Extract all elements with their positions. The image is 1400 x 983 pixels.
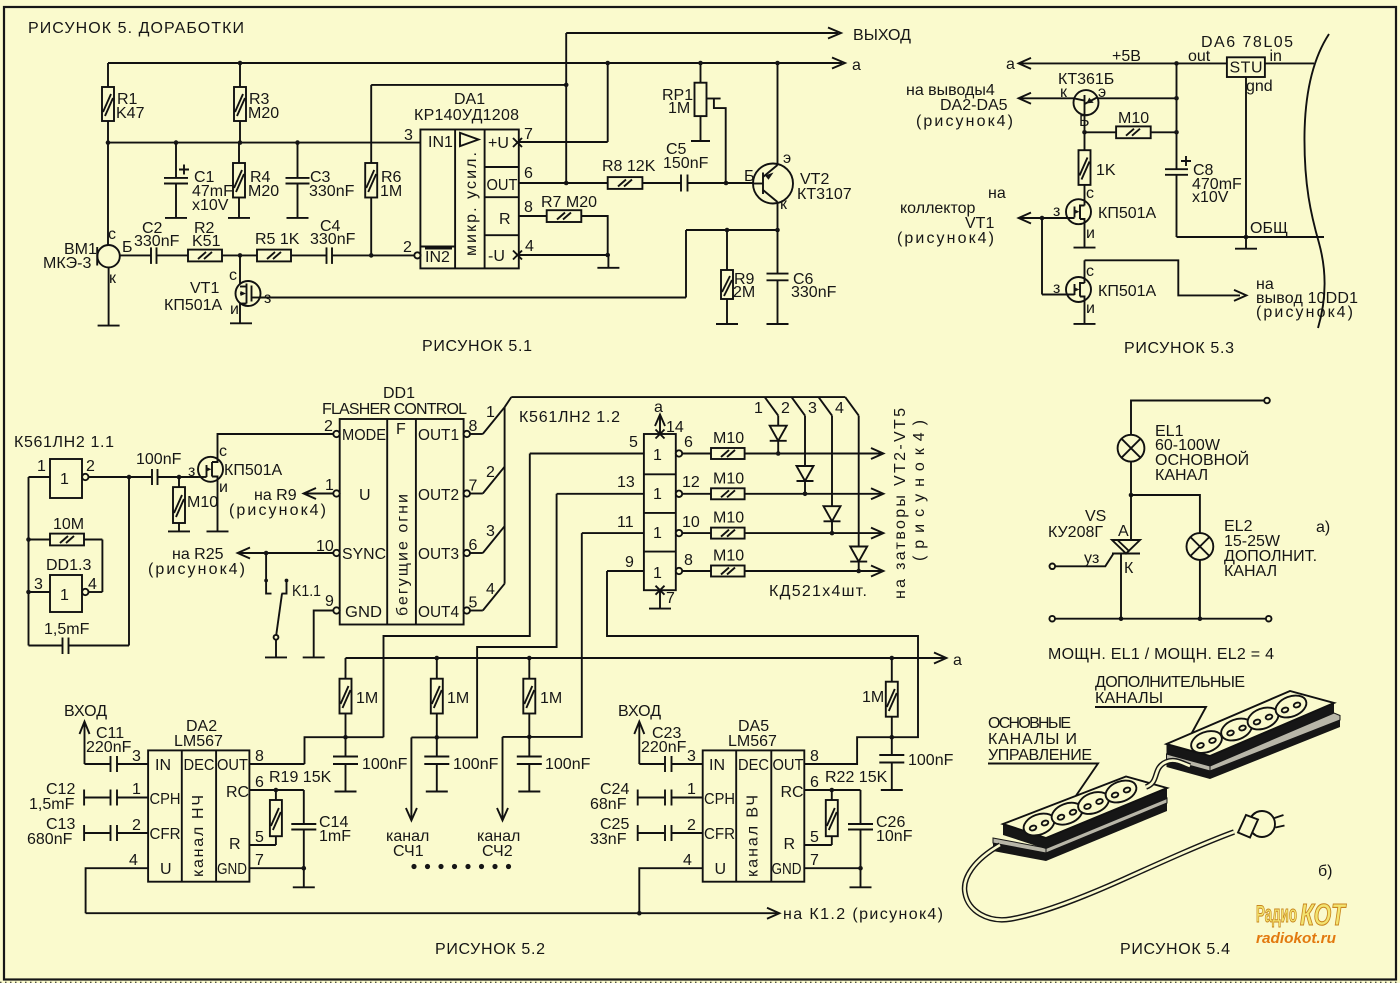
diode VD2 КД521 xyxy=(797,416,814,497)
power strip lower base board xyxy=(993,798,1167,861)
resistor 1M group3 xyxy=(523,658,562,737)
svg-text:2: 2 xyxy=(486,464,495,481)
svg-text:К561ЛН2 1.1: К561ЛН2 1.1 xyxy=(14,434,114,451)
wire net канал СЧ1 to pin13 xyxy=(386,494,557,860)
IC DA2 LM567 box xyxy=(148,718,249,882)
svg-text:КП501А: КП501А xyxy=(224,462,283,479)
svg-text:CFR: CFR xyxy=(704,826,735,843)
wire IN1 net horizontal y142 xyxy=(108,142,420,144)
wire gate уз xyxy=(1050,550,1114,569)
wire DA2 U pin4 down xyxy=(86,852,149,913)
svg-text:220nF: 220nF xyxy=(86,739,132,756)
resistor R3 M20 xyxy=(234,63,279,145)
capacitor 100nF xyxy=(136,451,198,485)
svg-text:R5 1K: R5 1K xyxy=(255,231,300,248)
ground under C14 xyxy=(293,886,315,888)
svg-text:КП501А: КП501А xyxy=(1098,205,1157,222)
svg-text:КР140УД1208: КР140УД1208 xyxy=(414,107,519,124)
svg-text:5: 5 xyxy=(469,595,478,612)
capacitor 100nF group4 xyxy=(879,737,953,790)
svg-text:1М: 1М xyxy=(540,690,562,707)
sockets upper strip xyxy=(1188,691,1310,757)
capacitor 100nF group1 xyxy=(333,737,408,791)
wire DA5 OUT pin8 xyxy=(804,748,857,765)
svg-text:1: 1 xyxy=(325,477,334,494)
svg-text:CFR: CFR xyxy=(150,826,181,843)
svg-text:M20: M20 xyxy=(248,183,279,200)
svg-text:RC: RC xyxy=(781,784,804,801)
capacitor C8 470mF polarized xyxy=(1165,63,1242,237)
svg-text:4: 4 xyxy=(129,852,138,869)
wire VT2 collector node xyxy=(686,228,780,298)
svg-text:к: к xyxy=(780,196,788,213)
svg-text:220nF: 220nF xyxy=(641,739,687,756)
wire top supply bus (net a) xyxy=(108,57,861,74)
svg-text:MODE: MODE xyxy=(342,427,386,444)
wire drain to вывод 10DD1 arrow xyxy=(1085,260,1359,321)
ground under M10 xyxy=(168,530,190,532)
svg-text:IN: IN xyxy=(709,757,725,774)
wire mic to ground xyxy=(98,267,120,325)
terminal top right xyxy=(1264,398,1270,404)
ground under C26 xyxy=(850,886,872,888)
svg-text:и: и xyxy=(1086,225,1095,242)
IC К561ЛН2 1.2 inverter column xyxy=(644,434,676,590)
svg-text:14: 14 xyxy=(666,419,684,436)
resistor R2 K51 xyxy=(188,220,257,261)
svg-text:КОТ: КОТ xyxy=(1300,897,1347,932)
svg-text:330nF: 330nF xyxy=(309,183,355,200)
wire input pin11 xyxy=(582,532,644,534)
svg-text:КП501А: КП501А xyxy=(164,297,223,314)
capacitor C6 330nF xyxy=(767,230,837,324)
svg-text:5: 5 xyxy=(810,829,819,846)
svg-text:на затворы VT2-VT5: на затворы VT2-VT5 xyxy=(892,408,909,599)
wire bottom rail xyxy=(1049,616,1271,622)
resistor 1M group2 xyxy=(431,658,469,737)
resistor 10M xyxy=(29,516,103,545)
svg-text:б): б) xyxy=(1318,863,1333,880)
svg-text:2: 2 xyxy=(687,817,696,834)
svg-text:УПРАВЛЕНИЕ: УПРАВЛЕНИЕ xyxy=(988,747,1092,764)
inverter DD1.1 xyxy=(29,458,152,498)
svg-text:1: 1 xyxy=(687,781,696,798)
lamp EL1 xyxy=(1118,423,1250,484)
svg-text:8: 8 xyxy=(255,748,264,765)
resistor M10 base xyxy=(1085,110,1179,138)
wire EL1 to node xyxy=(1129,462,1134,498)
wire DA2 OUT pin8 xyxy=(249,748,304,765)
svg-text:150nF: 150nF xyxy=(663,155,709,172)
lamp EL2 xyxy=(1187,518,1318,580)
svg-text:SYNC: SYNC xyxy=(342,546,386,563)
svg-text:DD1: DD1 xyxy=(383,385,415,402)
capacitor C25 33nF xyxy=(590,816,703,848)
svg-text:2: 2 xyxy=(781,400,790,417)
svg-text:DA2-DA5: DA2-DA5 xyxy=(940,97,1008,114)
power strip upper base board xyxy=(1167,713,1341,779)
svg-text:6: 6 xyxy=(255,774,264,791)
svg-text:U: U xyxy=(359,487,371,504)
resistor M10 channel4 xyxy=(682,548,883,577)
svg-text:3: 3 xyxy=(687,748,696,765)
svg-text:М10: М10 xyxy=(187,494,218,511)
svg-text:3: 3 xyxy=(404,127,413,144)
svg-text:1М: 1М xyxy=(447,690,469,707)
dots row separator xyxy=(411,864,511,869)
svg-text:IN: IN xyxy=(155,757,171,774)
svg-text:4: 4 xyxy=(88,576,97,593)
diode VD3 КД521 xyxy=(824,416,841,536)
ground under lower КП501А xyxy=(1074,323,1096,325)
wire DA2 GND pin7 xyxy=(249,852,306,887)
wire top to EL1 xyxy=(1131,401,1264,435)
wire net DA2.OUT to pin5 xyxy=(249,454,530,765)
svg-text:4: 4 xyxy=(835,400,844,417)
svg-text:11: 11 xyxy=(617,514,634,531)
svg-text:68nF: 68nF xyxy=(590,796,627,813)
svg-text:ОСНОВНЫЕ: ОСНОВНЫЕ xyxy=(988,715,1071,732)
svg-text:OUT: OUT xyxy=(217,757,248,774)
capacitor C1 47mF polarized xyxy=(164,140,233,218)
svg-text:K1.1: K1.1 xyxy=(292,583,321,600)
svg-text:R: R xyxy=(499,211,511,228)
svg-text:1: 1 xyxy=(653,486,662,503)
DD1 pin OUT3 xyxy=(418,523,505,563)
svg-text:ВЫХОД: ВЫХОД xyxy=(853,27,911,44)
svg-text:3: 3 xyxy=(132,748,141,765)
svg-text:4: 4 xyxy=(683,852,692,869)
svg-text:CPH: CPH xyxy=(150,791,181,808)
wire -U pin4 to ground xyxy=(519,253,620,268)
DA5 cell labels xyxy=(704,757,804,878)
node gate/M10 junction xyxy=(177,475,182,480)
svg-text:10: 10 xyxy=(682,514,700,531)
svg-text:10nF: 10nF xyxy=(876,828,913,845)
wire ВЫХОД output line xyxy=(566,27,911,44)
svg-text:А: А xyxy=(1118,523,1129,540)
svg-text:и: и xyxy=(1086,300,1095,317)
wire vertical ВЫХОД-to-OUT at x566 xyxy=(564,33,569,185)
logo Радио КОТ xyxy=(1256,897,1347,947)
svg-text:OUT3: OUT3 xyxy=(418,546,459,563)
node pin2/cap junction xyxy=(127,475,132,480)
svg-text:VS: VS xyxy=(1085,508,1106,525)
ground under C6 xyxy=(767,323,789,325)
svg-text:микр. усил.: микр. усил. xyxy=(463,152,480,256)
diode VD1 КД521 xyxy=(770,416,787,456)
svg-text:7: 7 xyxy=(255,852,264,869)
capacitor 100nF group3 xyxy=(517,737,591,792)
wire regulator in to mains curve xyxy=(1265,62,1314,64)
svg-text:М10: М10 xyxy=(1118,110,1149,127)
resistor M10 pulldown xyxy=(173,477,218,531)
svg-text:8: 8 xyxy=(684,552,693,569)
wire gate bus vertical xyxy=(1041,218,1043,295)
capacitor 100nF group2 xyxy=(424,737,498,791)
svg-text:з: з xyxy=(1053,280,1060,297)
svg-text:100nF: 100nF xyxy=(453,756,499,773)
svg-text:М10: М10 xyxy=(713,510,744,527)
svg-text:OUT4: OUT4 xyxy=(418,604,459,621)
DD1 pin OUT2 xyxy=(418,464,505,504)
wire net канал СЧ2 to pin11 xyxy=(477,533,582,860)
DA1 pin2 inversion bubble xyxy=(414,252,420,258)
svg-text:1mF: 1mF xyxy=(319,828,351,845)
transistor VT2 КТ3107 xyxy=(744,63,852,230)
svg-text:э: э xyxy=(1098,84,1106,101)
cord between strips xyxy=(1146,761,1190,787)
svg-text:K47: K47 xyxy=(116,105,145,122)
wire regulator gnd down xyxy=(1244,77,1249,249)
wire node to EL2 branch xyxy=(1131,495,1200,533)
resistor R22 15K xyxy=(825,769,888,845)
svg-text:33nF: 33nF xyxy=(590,831,627,848)
diode VD4 КД521 xyxy=(850,416,867,574)
svg-text:VT1: VT1 xyxy=(190,280,219,297)
svg-text:1: 1 xyxy=(486,404,495,421)
wire input pin13 xyxy=(557,493,644,495)
svg-text:и: и xyxy=(230,301,239,318)
svg-text:М10: М10 xyxy=(713,548,744,565)
svg-text:КАНАЛ: КАНАЛ xyxy=(1155,467,1208,484)
pin 7 ground with x mark xyxy=(649,586,675,609)
svg-text:8: 8 xyxy=(524,199,533,216)
op-amp symbol triangle in DA1 xyxy=(460,133,479,146)
pin labels inputs xyxy=(617,434,638,571)
svg-text:К561ЛН2 1.2: К561ЛН2 1.2 xyxy=(519,409,620,426)
svg-text:R8 12K: R8 12K xyxy=(602,158,656,175)
resistor M10 channel3 xyxy=(682,510,883,539)
node dots on top bus xyxy=(238,61,780,66)
svg-text:x10V: x10V xyxy=(1192,189,1229,206)
svg-text:с: с xyxy=(108,226,116,243)
svg-text:2M: 2M xyxy=(733,284,755,301)
svg-text:8: 8 xyxy=(469,418,478,435)
resistor R1 K47 xyxy=(102,63,145,245)
svg-text:э: э xyxy=(783,150,791,167)
DD1 pin GND xyxy=(314,593,382,657)
svg-text:с: с xyxy=(219,443,227,460)
label ОСНОВНЫЕ КАНАЛЫ И УПРАВЛЕНИЕ with leader xyxy=(988,715,1098,806)
wire EL2 to rail xyxy=(1199,560,1201,619)
svg-text:GND: GND xyxy=(217,861,247,878)
svg-text:8: 8 xyxy=(810,748,819,765)
ground under R9 xyxy=(716,323,738,325)
svg-text:СЧ1: СЧ1 xyxy=(393,843,424,860)
svg-text:R: R xyxy=(784,836,796,853)
svg-text:10M: 10M xyxy=(53,516,84,533)
DD1 pin MODE xyxy=(324,418,386,444)
resistor R6 1M feedback xyxy=(365,85,402,256)
transistor VT1 КП501А xyxy=(164,255,271,323)
svg-text:1: 1 xyxy=(60,587,69,604)
node R2/VT1 junction xyxy=(238,253,243,258)
svg-text:U: U xyxy=(715,861,727,878)
transistor КП501А lower xyxy=(1042,260,1157,324)
svg-text:1М: 1М xyxy=(862,689,884,706)
resistor M10 channel1 xyxy=(682,430,883,459)
svg-text:1: 1 xyxy=(653,447,662,464)
capacitor C26 10nF xyxy=(848,790,913,868)
svg-text:КТ3107: КТ3107 xyxy=(797,186,852,203)
capacitor C2 330nF xyxy=(134,220,188,264)
svg-text:ДОПОЛНИТЕЛЬНЫЕ: ДОПОЛНИТЕЛЬНЫЕ xyxy=(1095,674,1245,691)
transistor КТ361Б xyxy=(1058,71,1179,150)
svg-text:F: F xyxy=(396,421,406,438)
wire DD1.3 out to 10M xyxy=(101,540,103,593)
ground under regulator gnd xyxy=(1235,248,1257,250)
harness exit slant 1 xyxy=(754,397,778,417)
wire DA5 GND pin7 xyxy=(804,852,863,887)
svg-text:+5B: +5B xyxy=(1112,48,1141,65)
svg-text:КП501А: КП501А xyxy=(1098,283,1157,300)
svg-text:GND: GND xyxy=(345,604,382,621)
svg-text:М10: М10 xyxy=(713,470,744,487)
ground under group3 xyxy=(518,791,540,793)
transistor КП501А flasher xyxy=(188,434,333,531)
svg-text:13: 13 xyxy=(617,474,635,491)
DD1 pin SYNC with на R25 arrow xyxy=(148,538,386,578)
wire supply rail net a with arrow xyxy=(346,652,963,669)
svg-text:1: 1 xyxy=(653,565,662,582)
svg-text:OUT: OUT xyxy=(487,177,518,194)
svg-text:5: 5 xyxy=(629,434,638,451)
svg-text:FLASHER CONTROL: FLASHER CONTROL xyxy=(322,401,467,418)
thyristor VS КУ208Г xyxy=(1048,495,1140,577)
wire bottom line to K1.2 arrow xyxy=(86,906,943,923)
svg-text:100nF: 100nF xyxy=(545,756,591,773)
svg-text:3: 3 xyxy=(808,400,817,417)
node R6/IN2 junction xyxy=(369,253,374,258)
resistor R4 M20 xyxy=(233,143,279,218)
capacitor C13 680nF xyxy=(27,816,148,848)
svg-text:с: с xyxy=(229,267,237,284)
svg-text:на: на xyxy=(988,185,1006,202)
svg-text:LM567: LM567 xyxy=(728,733,777,750)
svg-text:R7 М20: R7 М20 xyxy=(541,194,597,211)
ground under group1 xyxy=(335,791,357,793)
svg-text:gnd: gnd xyxy=(1246,78,1273,95)
wire thyristor cathode xyxy=(1119,554,1124,622)
wire DA5 R pin5 xyxy=(804,829,832,846)
svg-text:3: 3 xyxy=(34,576,43,593)
svg-text:ОБЩ: ОБЩ xyxy=(1250,220,1288,237)
svg-text:1: 1 xyxy=(60,471,69,488)
resistor R7 M20 xyxy=(519,194,608,255)
svg-text:а): а) xyxy=(1316,519,1330,536)
svg-text:ВХОД: ВХОД xyxy=(618,703,661,720)
svg-text:и: и xyxy=(219,479,228,496)
wire mic output xyxy=(120,254,151,256)
wire +U pin7 to bus xyxy=(519,63,608,142)
resistor 1K xyxy=(1079,150,1116,200)
capacitor C14 1mF xyxy=(291,790,351,868)
ground under VT1 xyxy=(230,322,252,324)
wire VT1 gate to VT2 collector node xyxy=(260,297,686,299)
DA2 cell labels xyxy=(150,757,250,878)
node R1/C1 junction xyxy=(106,140,111,145)
svg-text:3: 3 xyxy=(486,523,495,540)
svg-text:1: 1 xyxy=(754,400,763,417)
svg-text:DEC: DEC xyxy=(738,757,769,774)
ground under C3 xyxy=(287,217,309,219)
svg-text:РИСУНОК 5.3: РИСУНОК 5.3 xyxy=(1124,340,1234,357)
svg-text:М10: М10 xyxy=(713,430,744,447)
svg-text:GND: GND xyxy=(772,861,802,878)
main cord xyxy=(965,832,1234,920)
svg-text:9: 9 xyxy=(625,554,634,571)
resistor M10 channel2 xyxy=(682,470,883,499)
svg-text:R22 15K: R22 15K xyxy=(825,769,888,786)
ground under K1.1 xyxy=(265,656,287,658)
svg-text:к: к xyxy=(109,270,117,287)
wire net DA5.OUT to pin9 xyxy=(607,571,918,764)
ground under group2 xyxy=(426,791,448,793)
svg-text:РИСУНОК 5.2: РИСУНОК 5.2 xyxy=(435,941,545,958)
svg-text:РИСУНОК 5. ДОРАБОТКИ: РИСУНОК 5. ДОРАБОТКИ xyxy=(28,20,244,37)
svg-text:К: К xyxy=(1124,560,1134,577)
svg-text:OUT2: OUT2 xyxy=(418,487,459,504)
svg-text:з: з xyxy=(188,463,195,480)
ground under R4 xyxy=(228,217,250,219)
svg-text:6: 6 xyxy=(469,537,478,554)
wire ОБЩ common line xyxy=(1177,220,1325,237)
svg-text:1: 1 xyxy=(132,781,141,798)
svg-text:МОЩН. EL1 / МОЩН. EL2 = 4: МОЩН. EL1 / МОЩН. EL2 = 4 xyxy=(1048,646,1274,663)
svg-text:R: R xyxy=(229,836,241,853)
capacitor C3 330nF xyxy=(286,140,355,218)
svg-text:СЧ2: СЧ2 xyxy=(482,843,513,860)
harness exit slant 3 xyxy=(808,397,832,417)
capacitor C4 330nF xyxy=(310,218,414,264)
wire feedback R6 top to x566 xyxy=(371,84,566,86)
svg-text:КАНАЛ: КАНАЛ xyxy=(1224,563,1277,580)
svg-text:OUT1: OUT1 xyxy=(418,427,459,444)
pin 14 supply with x mark and arrow a xyxy=(654,399,684,439)
transistor КП501А upper xyxy=(1021,185,1157,248)
wire ВХОД arrow DA2 xyxy=(64,703,110,764)
svg-text:6: 6 xyxy=(524,165,533,182)
svg-text:330nF: 330nF xyxy=(310,231,356,248)
svg-text:6: 6 xyxy=(684,434,693,451)
ground under group4 xyxy=(881,789,903,791)
DA1 cell label IN2 with overline xyxy=(425,249,452,267)
svg-text:з: з xyxy=(1053,203,1060,220)
svg-text:+U: +U xyxy=(488,135,509,152)
svg-text:7: 7 xyxy=(524,126,533,143)
svg-text:330nF: 330nF xyxy=(134,233,180,250)
svg-text:Б: Б xyxy=(744,168,755,185)
svg-text:7: 7 xyxy=(666,590,675,607)
inverter DD1.3 xyxy=(29,557,103,612)
svg-text:100nF: 100nF xyxy=(362,756,408,773)
svg-text:R19 15K: R19 15K xyxy=(269,769,332,786)
svg-text:ВХОД: ВХОД xyxy=(64,703,107,720)
capacitor C24 68nF xyxy=(590,781,703,813)
svg-text:LM567: LM567 xyxy=(174,733,223,750)
ground under DD1 GND xyxy=(303,656,325,658)
svg-text:1: 1 xyxy=(653,525,662,542)
svg-text:1,5mF: 1,5mF xyxy=(44,621,90,638)
ground under КП501А source xyxy=(207,530,229,532)
wire cap to pin2 node xyxy=(128,477,130,646)
svg-text:6: 6 xyxy=(810,774,819,791)
svg-text:DD1.3: DD1.3 xyxy=(46,557,91,574)
svg-text:K51: K51 xyxy=(192,233,221,250)
resistor 1M group1 xyxy=(340,658,379,737)
svg-text:IN2: IN2 xyxy=(425,249,450,266)
